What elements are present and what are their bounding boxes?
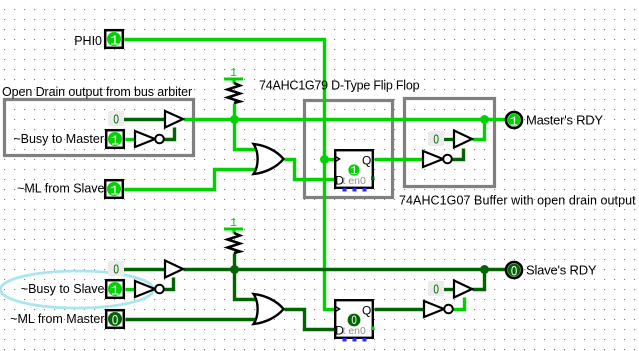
svg-text:~Busy to Master: ~Busy to Master	[13, 132, 104, 146]
wire: PHI0 clock net (high)	[125, 40, 335, 310]
wire: RDY net to OR gate G1 top input	[235, 120, 258, 150]
svg-text:1: 1	[351, 165, 358, 178]
probe P3 value 0	[108, 261, 124, 276]
caption: 74AHC1G07 Buffer with open drain output	[399, 194, 636, 208]
tri-state buffer U6	[454, 281, 472, 298]
inverter G3	[423, 151, 452, 167]
svg-text:Q: Q	[362, 154, 371, 168]
svg-text:0: 0	[112, 312, 119, 328]
caption: Open Drain output from bus arbiter	[2, 85, 192, 99]
wire: probe P1 to buffer U2 input (low)	[123, 118, 166, 121]
wire: probe P3 to buffer U5 input (low)	[123, 268, 166, 271]
wire: slave net to OR gate G4 top input (low)	[235, 270, 258, 300]
annotation oval (selection highlight)	[1, 271, 154, 308]
OR gate G1	[254, 144, 284, 174]
probe P1 value 0	[108, 111, 124, 126]
inverter G6	[424, 301, 453, 317]
svg-text:~ML from Slave: ~ML from Slave	[17, 182, 104, 196]
wire: U1 Q output to inverter G3 (high)	[375, 158, 424, 161]
svg-text:Open Drain output from bus arb: Open Drain output from bus arbiter	[2, 85, 192, 99]
resistor R1 pull-up to 1	[224, 67, 243, 103]
box: 74AHC1G79 flip flop group	[305, 101, 393, 198]
inverter G2	[135, 131, 164, 147]
wire: pin ~Busy to Master to inverter G2 (high)	[126, 138, 136, 141]
wire: pin ~Busy to Slave to inverter G5 (high)	[126, 288, 136, 291]
wire: buffer U6 output to slave net (low)	[473, 270, 485, 290]
junction R1/RDY net	[230, 115, 239, 124]
input pin ~Busy to Slave (1)	[21, 280, 124, 300]
junction U3 output/RDY net	[480, 115, 489, 124]
svg-text:1: 1	[111, 134, 119, 150]
flip-flop U4 (74AHC1G79, Q=0)	[335, 300, 375, 341]
svg-text:0: 0	[511, 262, 518, 278]
wire: probe P2 to buffer U3 input (low)	[443, 138, 455, 141]
svg-text:0: 0	[433, 132, 439, 146]
probe P2 value 0	[428, 131, 444, 146]
svg-text:74AHC1G07 Buffer with open dra: 74AHC1G07 Buffer with open drain output	[399, 194, 636, 208]
output pin Master's RDY (1)	[506, 112, 603, 130]
svg-text:0: 0	[351, 315, 356, 327]
resistor R2 pull-up to 1	[224, 217, 243, 253]
output pin Slave's RDY (0)	[506, 262, 597, 278]
box: bus arbiter group	[5, 100, 194, 156]
wire: inverter G6 output to U6 enable (high)	[454, 298, 465, 310]
inverter G5	[135, 281, 164, 297]
wire: inverter G3 output to U3 enable (low)	[453, 149, 464, 160]
svg-text:1: 1	[510, 114, 518, 130]
wire: pull-up resistor R2 stub (low)	[233, 254, 236, 270]
svg-text:Slave's RDY: Slave's RDY	[526, 262, 597, 277]
wire: inverter G2 output to U2 enable (low)	[165, 128, 175, 140]
probe P4 value 0	[428, 281, 444, 296]
junction R2/slave net	[230, 265, 239, 274]
svg-text:74AHC1G79 D-Type Flip Flop: 74AHC1G79 D-Type Flip Flop	[259, 79, 420, 93]
svg-text:1: 1	[111, 284, 119, 300]
wire: OR gate G4 output to U4 D input (low)	[285, 310, 335, 330]
OR gate G4	[254, 294, 284, 324]
wire: inverter G5 output to U5 enable (low)	[165, 278, 174, 290]
svg-text:PHI0: PHI0	[74, 34, 102, 48]
tri-state buffer U2	[165, 111, 183, 128]
svg-text:1: 1	[110, 34, 118, 50]
svg-text:~Busy to Slave: ~Busy to Slave	[21, 282, 105, 296]
svg-text:~ML from Master: ~ML from Master	[10, 312, 104, 326]
box: 74AHC1G07 buffer group	[405, 99, 495, 187]
wire: U4 Q output to inverter G6 (low)	[375, 308, 425, 311]
tri-state buffer U5	[165, 261, 183, 278]
svg-text:Master's RDY: Master's RDY	[526, 112, 603, 127]
svg-text:0: 0	[433, 282, 439, 296]
input pin PHI0 (1)	[74, 30, 123, 50]
tri-state buffer U3	[454, 131, 472, 148]
svg-text:0: 0	[113, 262, 119, 276]
junction U6 output/slave net	[480, 265, 489, 274]
caption: 74AHC1G79 D-Type Flip Flop	[259, 79, 420, 93]
input pin ~Busy to Master (1)	[13, 130, 123, 150]
flip-flop U1 (74AHC1G79, Q=1)	[335, 150, 375, 191]
svg-text:Q: Q	[362, 304, 371, 318]
input pin ~ML from Slave (1)	[17, 180, 123, 200]
wire: pin ~ML from Slave to OR gate G1 lower input (high)	[125, 170, 258, 190]
wire: clock tap to U1 flip flop	[325, 158, 335, 161]
svg-text:0: 0	[113, 112, 119, 126]
wire: master RDY net (high)	[184, 118, 507, 121]
svg-text:1: 1	[110, 184, 118, 200]
wire: probe P4 to buffer U6 input (low)	[443, 288, 455, 291]
wire: OR gate G1 output to U1 D input (high)	[285, 160, 335, 180]
input pin ~ML from Master (0)	[10, 310, 124, 328]
wire: pin ~ML from Master to OR gate G4 lower input (low)	[126, 318, 258, 321]
wire: buffer U3 output to RDY net	[473, 120, 485, 140]
wire: slave RDY net (low)	[184, 268, 507, 271]
wire: pull-up resistor R1 stub	[233, 104, 236, 120]
junction at clock tap	[320, 155, 329, 164]
